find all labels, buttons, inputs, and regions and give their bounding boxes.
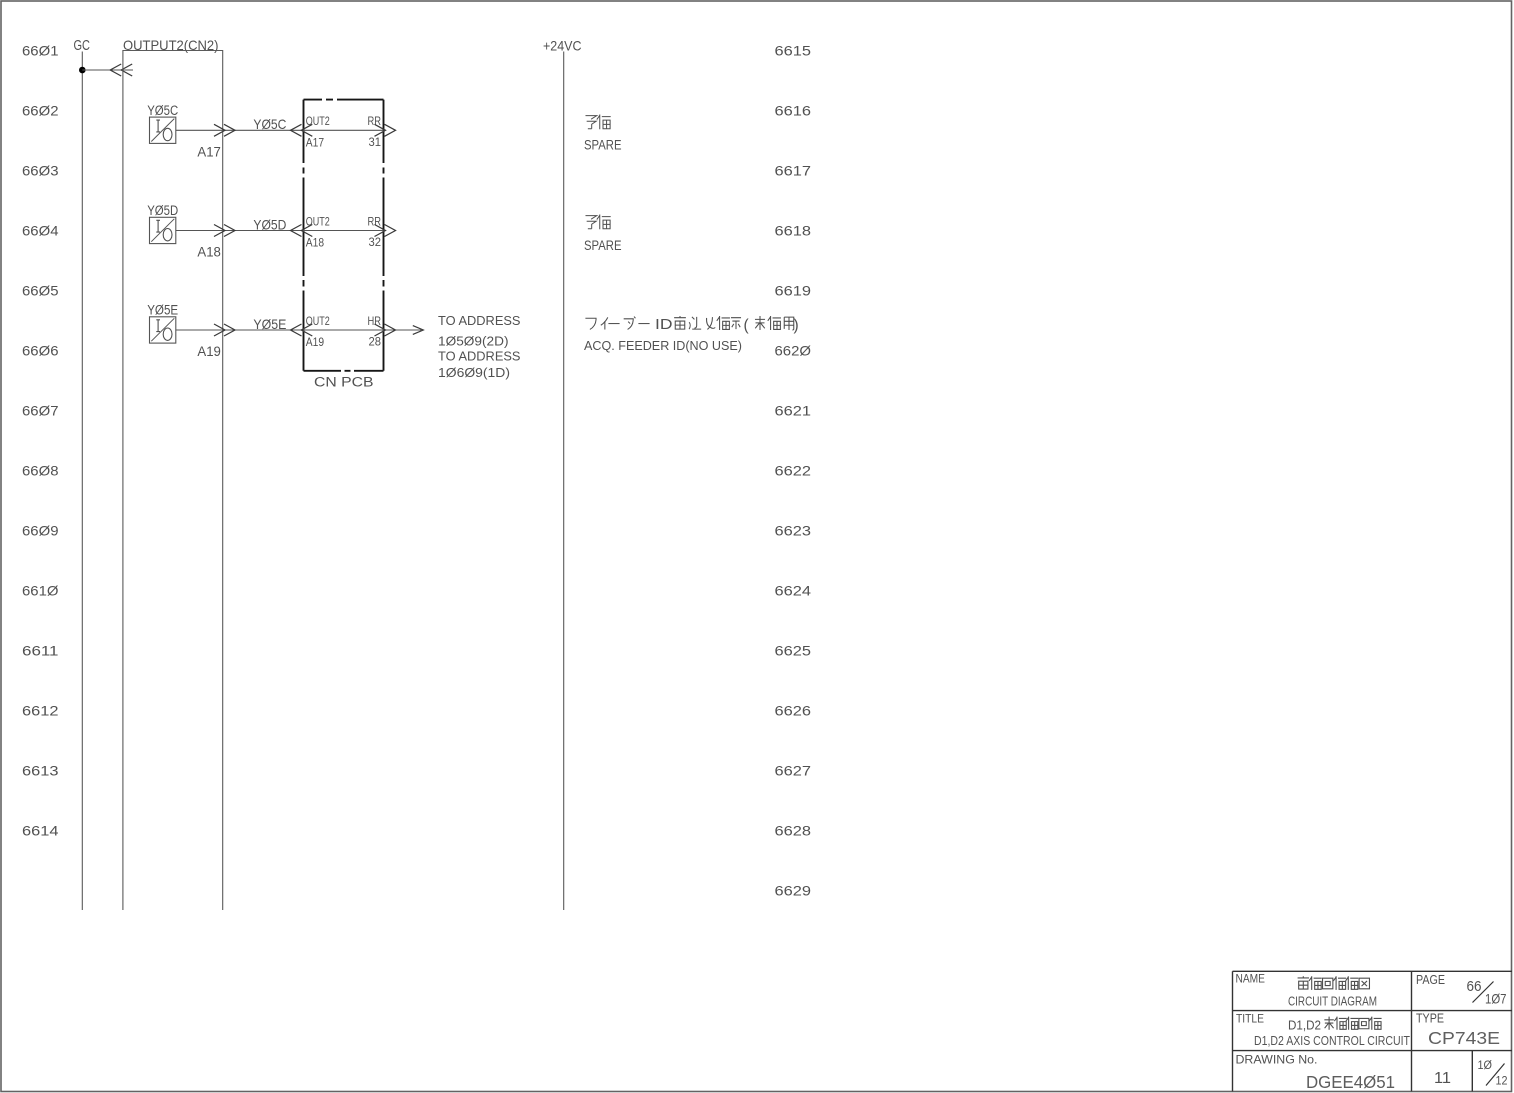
svg-text:6628: 6628 <box>775 824 812 839</box>
wire arrowhead to address destination <box>413 326 424 335</box>
svg-text:SPARE: SPARE <box>584 136 622 152</box>
svg-text:RR: RR <box>368 114 382 128</box>
I/O symbol letter I <box>156 120 160 132</box>
svg-text:6627: 6627 <box>775 764 812 779</box>
svg-text:66Ø2: 66Ø2 <box>22 103 59 118</box>
svg-text:661Ø: 661Ø <box>22 583 59 598</box>
svg-text:28: 28 <box>369 335 382 349</box>
svg-text:66: 66 <box>1467 978 1482 995</box>
svg-text:PAGE: PAGE <box>1416 973 1445 987</box>
svg-text:6622: 6622 <box>775 464 812 479</box>
I/O symbol letter O <box>163 229 172 241</box>
wire GC vertical bus <box>81 52 83 911</box>
pin chevrons at CN PCB right edge <box>375 324 386 336</box>
svg-text:YØ5D: YØ5D <box>253 216 286 232</box>
svg-text:6623: 6623 <box>775 524 812 539</box>
svg-text:TO ADDRESS: TO ADDRESS <box>438 349 521 363</box>
pin chevrons at CN PCB left edge <box>291 124 302 136</box>
power rail +24VC vertical line <box>563 52 565 911</box>
svg-text:OUT2: OUT2 <box>306 214 330 228</box>
title block name Japanese: denki kairo senzu <box>1298 976 1309 989</box>
svg-text:66Ø7: 66Ø7 <box>22 403 59 418</box>
svg-text:A18: A18 <box>306 236 325 250</box>
svg-text:CN PCB: CN PCB <box>314 374 374 389</box>
svg-text:D1,D2: D1,D2 <box>1288 1017 1321 1032</box>
svg-text:YØ5E: YØ5E <box>147 303 178 318</box>
I/O output module Y05C box <box>150 117 176 143</box>
svg-text:+24VC: +24VC <box>543 38 582 54</box>
svg-text:A19: A19 <box>306 335 324 349</box>
svg-text:6629: 6629 <box>775 884 812 899</box>
title block divider under TITLE row <box>1233 1050 1513 1052</box>
I/O symbol diagonal <box>151 219 174 242</box>
svg-text:6616: 6616 <box>775 104 812 119</box>
svg-text:6612: 6612 <box>22 703 59 718</box>
svg-text:D1,D2 AXIS CONTROL CIRCUIT: D1,D2 AXIS CONTROL CIRCUIT <box>1254 1033 1410 1048</box>
svg-text:YØ5C: YØ5C <box>147 103 178 118</box>
svg-text:CIRCUIT DIAGRAM: CIRCUIT DIAGRAM <box>1288 994 1377 1009</box>
svg-text:OUT2: OUT2 <box>306 314 330 328</box>
svg-text:66Ø6: 66Ø6 <box>22 343 59 358</box>
I/O symbol letter O <box>163 328 172 340</box>
svg-text:1Ø5Ø9(2D): 1Ø5Ø9(2D) <box>438 334 509 348</box>
svg-text:HR: HR <box>368 314 382 328</box>
svg-text:): ) <box>794 317 799 334</box>
svg-text:66Ø3: 66Ø3 <box>22 163 59 178</box>
svg-text:OUT2: OUT2 <box>306 114 330 128</box>
svg-text:66Ø9: 66Ø9 <box>22 523 59 538</box>
note SPARE (row 1) Japanese yobi <box>585 116 596 129</box>
svg-text:TITLE: TITLE <box>1236 1013 1264 1025</box>
I/O symbol letter O <box>163 128 172 140</box>
CN PCB board outline left edge <box>303 100 305 371</box>
I/O symbol letter I <box>156 220 160 232</box>
title block vertical divider NAME/PAGE <box>1411 971 1413 1091</box>
svg-text:6618: 6618 <box>775 224 812 239</box>
svg-text:6614: 6614 <box>22 823 59 838</box>
svg-text:6621: 6621 <box>775 404 812 419</box>
svg-text:DRAWING No.: DRAWING No. <box>1236 1052 1318 1066</box>
svg-text:A17: A17 <box>306 136 324 150</box>
svg-text:6625: 6625 <box>775 644 812 659</box>
pin chevrons at OUTPUT2(CN2) right edge <box>214 124 225 136</box>
svg-text:1Ø: 1Ø <box>1478 1060 1493 1072</box>
svg-text:1Ø6Ø9(1D): 1Ø6Ø9(1D) <box>438 366 510 380</box>
svg-text:YØ5C: YØ5C <box>253 116 286 132</box>
pin chevrons at CN PCB left edge <box>291 225 302 237</box>
svg-text:A19: A19 <box>197 343 221 359</box>
svg-text:YØ5E: YØ5E <box>253 316 286 332</box>
svg-text:6615: 6615 <box>775 44 812 59</box>
wire Y05D from module to CN PCB <box>176 230 384 232</box>
svg-text:66Ø5: 66Ø5 <box>22 283 59 298</box>
junction dot on GC bus <box>79 67 86 74</box>
note ACQ FEEDER ID Japanese line <box>585 318 596 329</box>
pin chevrons at OUTPUT2(CN2) right edge <box>214 225 225 237</box>
connector pin chevrons at OUTPUT2(CN2) left edge <box>110 64 121 76</box>
wire Y05E from module to CN PCB <box>176 329 422 331</box>
pin chevrons at CN PCB right edge <box>375 225 386 237</box>
svg-text:6619: 6619 <box>775 284 812 299</box>
svg-text:6613: 6613 <box>22 763 59 778</box>
svg-text:6626: 6626 <box>775 704 812 719</box>
svg-text:(: ( <box>744 317 750 334</box>
svg-text:DGEE4Ø51: DGEE4Ø51 <box>1306 1072 1395 1092</box>
I/O output module Y05D box <box>150 217 176 243</box>
svg-text:ID: ID <box>655 317 673 333</box>
svg-text:12: 12 <box>1496 1075 1508 1087</box>
svg-text:66Ø4: 66Ø4 <box>22 223 59 238</box>
svg-text:6611: 6611 <box>22 643 59 658</box>
svg-text:66Ø1: 66Ø1 <box>22 43 59 58</box>
title block outline <box>1233 970 1513 972</box>
svg-text:31: 31 <box>369 135 382 149</box>
CN PCB board outline bottom edge <box>304 370 384 372</box>
I/O symbol diagonal <box>151 318 174 341</box>
connector OUTPUT2(CN2) box <box>123 51 223 911</box>
pin chevrons at OUTPUT2(CN2) right edge <box>214 324 225 336</box>
wire Y05C from module to CN PCB <box>176 129 384 131</box>
svg-text:32: 32 <box>369 235 382 249</box>
svg-text:NAME: NAME <box>1236 973 1266 985</box>
svg-text:CP743E: CP743E <box>1428 1028 1500 1048</box>
svg-text:6617: 6617 <box>775 164 812 179</box>
svg-text:TYPE: TYPE <box>1416 1011 1444 1025</box>
svg-text:11: 11 <box>1434 1070 1451 1087</box>
svg-text:TO ADDRESS: TO ADDRESS <box>438 314 521 328</box>
I/O symbol letter I <box>156 320 160 332</box>
I/O symbol diagonal <box>151 119 174 142</box>
pin chevrons at CN PCB left edge <box>291 324 302 336</box>
svg-text:662Ø: 662Ø <box>775 344 812 359</box>
svg-text:A17: A17 <box>197 143 221 159</box>
CN PCB board outline (dash-dot) top edge <box>304 99 384 101</box>
CN PCB board outline right edge <box>383 100 385 371</box>
svg-text:YØ5D: YØ5D <box>147 203 178 218</box>
svg-text:SPARE: SPARE <box>584 237 622 253</box>
svg-text:6624: 6624 <box>775 584 812 599</box>
svg-text:RR: RR <box>368 214 382 228</box>
svg-text:66Ø8: 66Ø8 <box>22 463 59 478</box>
title block divider under NAME row <box>1233 1010 1513 1012</box>
wire GC junction to connector OUTPUT2(CN2) <box>82 69 133 71</box>
svg-text:A18: A18 <box>197 244 221 260</box>
svg-text:1Ø7: 1Ø7 <box>1485 990 1507 1006</box>
note SPARE (row 2) Japanese yobi <box>585 216 596 229</box>
title block vertical divider page/date cell <box>1471 1051 1473 1092</box>
I/O output module Y05E box <box>150 317 176 343</box>
pin chevrons at CN PCB right edge <box>375 124 386 136</box>
svg-text:ACQ. FEEDER ID(NO USE): ACQ. FEEDER ID(NO USE) <box>584 338 742 353</box>
